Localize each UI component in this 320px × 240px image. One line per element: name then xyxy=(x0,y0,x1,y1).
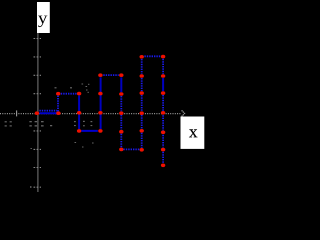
vertical V163 dotted (y 151.8-163) xyxy=(162,152,164,163)
step segment H+1 dotted (x 61-76.3, y=93.7) xyxy=(61,93,77,95)
y-axis tick y=56.9 xyxy=(34,56,42,58)
vertical V121 dotted (y 96-111.2) xyxy=(120,96,122,111)
red dot (141.7,113.2) xyxy=(140,111,144,115)
red dot (121.3,149.4) xyxy=(119,148,123,152)
y-axis label glyph xyxy=(38,16,47,27)
vertical V121 dotted (y 133.8-147.4) xyxy=(120,134,122,148)
vertical V163 dotted (y 115.2-130.4) xyxy=(162,115,164,130)
vertical V142 dotted (y 95-111.2) xyxy=(141,95,143,111)
red dot (121.3,75.2) xyxy=(119,73,123,77)
x-axis (dotted gray horizontal line) xyxy=(0,113,181,115)
x-axis label glyph xyxy=(189,129,197,137)
red dot (79,130.9) xyxy=(77,129,81,133)
step segment H+3 dotted (x 144.5-160.6, y=56.3) xyxy=(144,55,160,57)
vertical V163 solid (y 78-91.2) xyxy=(162,78,164,91)
red dot (100.4,75.2) xyxy=(98,73,102,77)
y-axis (solid gray vertical line) xyxy=(37,33,39,193)
red dot (121.3,131.7) xyxy=(119,130,123,134)
y-axis tick y=149.4 xyxy=(34,148,42,150)
vertical V142 dotted (y 59-74) xyxy=(141,59,143,74)
vertical V79 solid (y 95.5-129.2) xyxy=(78,96,80,130)
vertical V100 solid (y 77.3-129.2) xyxy=(100,77,102,129)
tick label specks cluster (27-34,121-127) xyxy=(29,121,31,127)
y-axis label white box xyxy=(37,2,50,33)
red dot (37.4,113.2) origin xyxy=(35,111,39,115)
red dot (141.7,56.8) xyxy=(140,55,144,59)
x-axis tick at x=16.5 xyxy=(16,110,18,116)
red dot (58.3,113.2) xyxy=(56,111,60,115)
y-axis tick y=93.7 xyxy=(34,93,42,95)
red dot (79,93.6) xyxy=(77,92,81,96)
step segment H-1 solid (x 81.5-97.5, y=130.9) xyxy=(81,130,98,132)
tick label specks cluster (36-47,120-127) xyxy=(35,121,53,127)
red dot (141.7,130.6) xyxy=(140,129,144,133)
y-axis tick y=75.3 xyxy=(34,74,42,76)
red dot (100.4,130.9) xyxy=(98,129,102,133)
step segment H+2 dotted (x 103.3-118.6, y=75.1) xyxy=(103,74,118,76)
vertical V121 solid upper (y 77.3-92) xyxy=(120,77,122,92)
y-axis tick y=185.8 xyxy=(34,186,42,188)
red dot (163.1,149.6) xyxy=(161,148,165,152)
red dot (141.7,150) xyxy=(140,148,144,152)
red dot (141.7,93.1) xyxy=(140,91,144,95)
tick label specks near (54-72,87-89) xyxy=(55,87,73,88)
tick label specks cluster (73-95,120-127) xyxy=(74,121,92,126)
step segment H-2 dotted (x 123.5-139.2, y=149.4) xyxy=(123,148,139,150)
red dot (141.7,76) xyxy=(140,74,144,78)
y-axis tick y=130.9 xyxy=(34,130,42,132)
red dot (163.1,132.3) xyxy=(161,131,165,135)
red dot (79,112.8) xyxy=(77,111,81,115)
step segment H0 dotted companion (y=110.6) xyxy=(39,110,57,112)
vertical V142 dotted (y 132.8-148) xyxy=(141,133,143,148)
red dot (121.3,94) xyxy=(119,92,123,96)
step segment H0 solid (level 0, x 39.5-56.5) xyxy=(39,112,56,114)
red dot (163.1,165.3) xyxy=(161,164,165,168)
red dot (163.1,93.1) xyxy=(161,91,165,95)
x-axis label white box xyxy=(181,117,205,149)
y-axis tick y=167.5 xyxy=(34,167,42,169)
vertical V163 dotted (y 95-110.8) xyxy=(162,95,164,111)
vertical V142 dotted (y 115-128.6) xyxy=(141,115,143,129)
tick label specks cluster (4-16,121-127) xyxy=(5,121,12,126)
red dot (163.1,112.8) xyxy=(161,111,165,115)
red dot (58.3,93.7) xyxy=(56,92,60,96)
red dot (100.4,93.6) xyxy=(98,92,102,96)
vertical V142 dotted (y 78-91) xyxy=(141,78,143,91)
vertical V58 dotted (y 95.5-111.3) xyxy=(57,96,59,112)
x-axis arrowhead xyxy=(181,110,185,116)
red dot (121.3,113.2) xyxy=(119,111,123,115)
vertical V121 dotted (y 115-129.8) xyxy=(120,115,122,130)
tick label specks cluster (85-89,84-93) xyxy=(86,90,89,93)
y-axis tick y=38.5 xyxy=(34,38,42,40)
red dot (100.4,112.8) xyxy=(98,111,102,115)
tick label specks cluster (81-89,83-88) xyxy=(82,84,90,88)
vertical V163 dotted (y 134.8-147.4) xyxy=(162,135,164,148)
red dot (163.1,56.6) xyxy=(161,55,165,59)
red dot (163.1,76) xyxy=(161,74,165,78)
vertical V163 dotted (y 58.8-74) xyxy=(162,59,164,74)
tick label specks cluster (74-95,141-151) xyxy=(30,142,94,188)
